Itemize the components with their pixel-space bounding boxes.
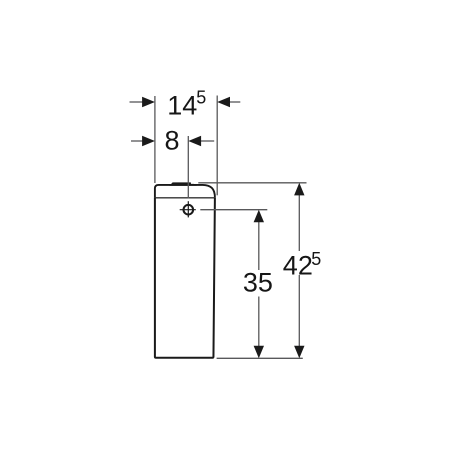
svg-text:35: 35 (243, 267, 273, 297)
svg-text:8: 8 (164, 125, 179, 155)
svg-text:14: 14 (167, 91, 197, 121)
svg-text:42: 42 (283, 250, 313, 280)
svg-text:5: 5 (196, 88, 206, 108)
svg-text:5: 5 (311, 249, 321, 269)
